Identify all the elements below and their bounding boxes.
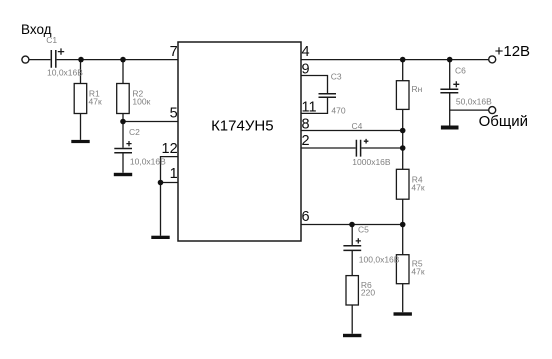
svg-text:470: 470 [331,105,345,115]
svg-text:2: 2 [302,133,310,149]
svg-text:47к: 47к [411,266,424,276]
svg-text:50,0x16В: 50,0x16В [456,97,492,107]
svg-text:220: 220 [361,288,375,298]
svg-text:C6: C6 [455,65,466,75]
svg-text:C2: C2 [129,127,140,137]
svg-text:6: 6 [302,209,310,225]
svg-text:C1: C1 [46,35,57,45]
svg-text:12: 12 [162,141,178,157]
svg-text:8: 8 [302,117,310,133]
svg-text:7: 7 [170,44,178,60]
svg-text:47к: 47к [411,182,424,192]
svg-text:5: 5 [170,106,178,122]
svg-text:1000x16В: 1000x16В [352,157,391,167]
svg-text:Общий: Общий [479,113,528,130]
svg-text:C4: C4 [352,121,363,131]
svg-text:C3: C3 [331,71,342,81]
svg-text:9: 9 [302,61,310,77]
svg-text:47к: 47к [89,97,102,107]
svg-text:100к: 100к [132,97,150,107]
svg-text:11: 11 [302,100,317,116]
svg-text:К174УН5: К174УН5 [211,117,273,134]
svg-text:C5: C5 [358,225,369,235]
svg-text:1: 1 [170,166,178,182]
svg-text:4: 4 [302,44,310,60]
svg-text:+12В: +12В [495,43,530,60]
svg-text:Rн: Rн [412,84,423,94]
svg-text:100,0x16В: 100,0x16В [359,254,400,264]
svg-text:10,0x16В: 10,0x16В [130,156,166,166]
svg-text:10,0x16В: 10,0x16В [47,67,83,77]
